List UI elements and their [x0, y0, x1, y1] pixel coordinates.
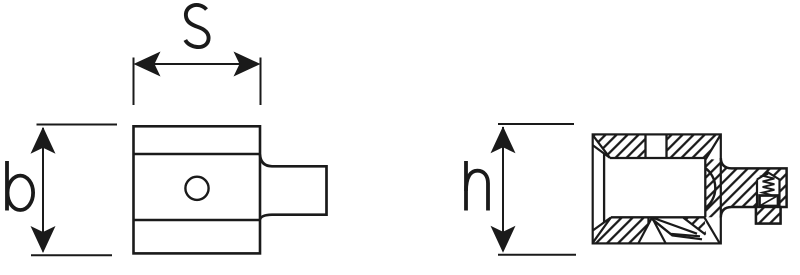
letter h	[466, 161, 488, 211]
chamfer edge A bottom-left	[593, 217, 611, 242]
retainer blade lower edge	[652, 219, 702, 239]
chamfer edge A top-left	[593, 135, 610, 158]
extension line h top	[498, 123, 574, 125]
arrowhead h down	[491, 226, 516, 253]
section hatch: right band	[705, 158, 721, 217]
top hole white gap	[646, 135, 667, 158]
retainer fan line R0 down-left	[639, 218, 653, 244]
chamfer diagonal top-right	[706, 135, 721, 160]
chamfer edge B top-left	[593, 145, 610, 158]
pin foot hatch	[756, 207, 781, 224]
front view body	[134, 126, 261, 253]
pin foot outline	[756, 207, 781, 224]
top hole wall left	[644, 134, 646, 158]
letter S	[185, 5, 208, 47]
extension line h bottom	[498, 254, 576, 256]
pin head	[760, 196, 779, 207]
dimension line b	[42, 128, 44, 252]
retainer fan line R1 steep	[652, 218, 666, 244]
socket left flat edge	[603, 154, 605, 223]
extension line b bottom	[31, 254, 112, 256]
arrowhead S right	[234, 52, 261, 77]
section hatch: bottom band corner triangle	[683, 218, 706, 236]
pin slot cone top	[757, 173, 780, 180]
extension line S right	[260, 58, 262, 106]
arrowhead b down	[31, 226, 56, 253]
socket bottom edge	[611, 216, 705, 218]
dimension line h	[502, 127, 504, 251]
retainer brace	[683, 218, 705, 235]
front view shoulder line top	[134, 153, 261, 156]
arrowhead b up	[31, 127, 56, 154]
socket top edge	[610, 157, 705, 159]
pin slot wall right	[778, 180, 780, 208]
arrowhead S left	[134, 52, 161, 77]
front view pin hole circle	[185, 177, 208, 200]
top hole wall right	[665, 134, 667, 158]
section hatch: tang with pin slot hole	[721, 158, 787, 217]
tang outline	[721, 158, 787, 224]
retainer blade upper edge	[653, 220, 700, 237]
dimension line S	[136, 63, 258, 65]
detent ball arc	[705, 168, 715, 208]
front view square tang	[260, 155, 327, 220]
chamfer edge B bottom-left	[593, 217, 611, 230]
section body outer outline	[593, 134, 721, 243]
pin head diagonal	[760, 196, 779, 207]
socket right edge	[704, 158, 706, 217]
extension line b top	[37, 124, 118, 126]
section hatch: bottom band left part	[593, 217, 652, 243]
extension line S left	[133, 58, 135, 106]
section hatch: top band	[593, 134, 721, 158]
pin slot wall left	[756, 180, 758, 208]
front view shoulder line bottom	[134, 219, 261, 222]
letter b	[7, 161, 33, 211]
chamfer diagonal bottom-right	[704, 217, 719, 243]
arrowhead h up	[491, 126, 516, 153]
bottom hole wall	[647, 217, 649, 224]
spring zigzag	[763, 174, 775, 195]
retainer fan line L3 shallow	[652, 218, 697, 234]
